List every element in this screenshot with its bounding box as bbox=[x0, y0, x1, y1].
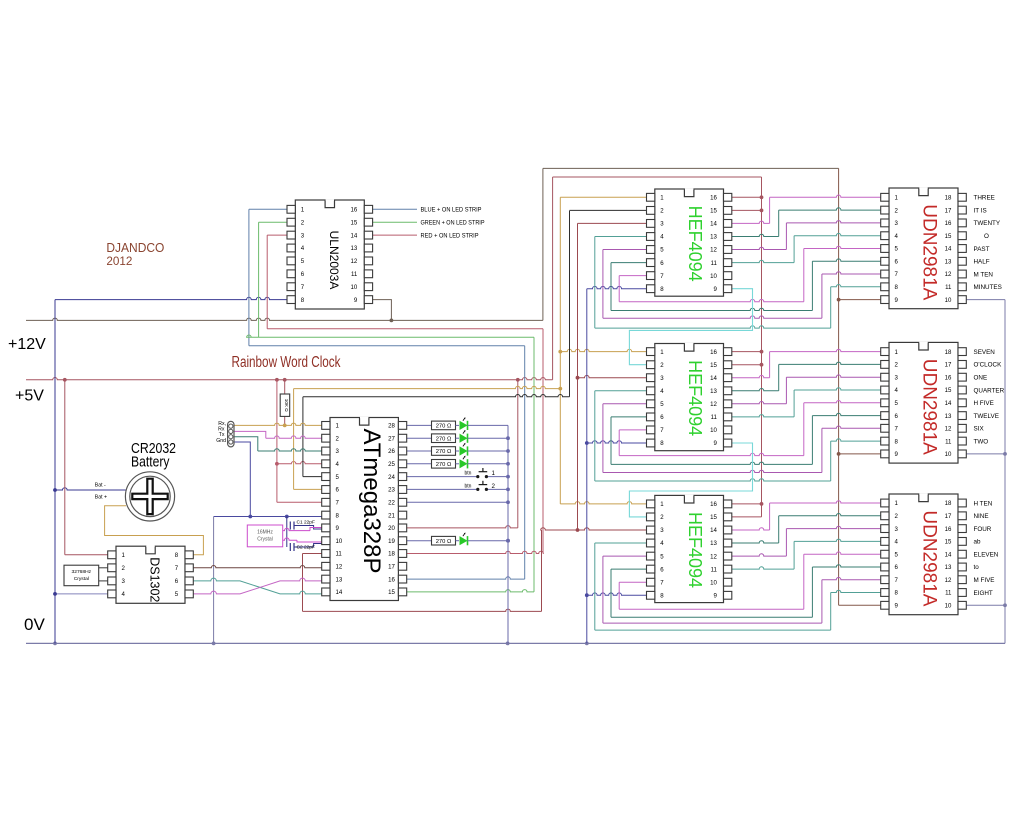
svg-text:C2 22pF: C2 22pF bbox=[297, 545, 315, 551]
svg-text:Battery: Battery bbox=[131, 455, 170, 471]
svg-text:17: 17 bbox=[945, 362, 952, 369]
svg-text:5: 5 bbox=[660, 553, 664, 560]
svg-text:16: 16 bbox=[351, 207, 358, 214]
svg-text:7: 7 bbox=[660, 579, 664, 586]
svg-text:HALF: HALF bbox=[974, 259, 990, 266]
svg-text:32768Hz: 32768Hz bbox=[72, 569, 92, 575]
svg-text:11: 11 bbox=[711, 414, 718, 421]
svg-text:16: 16 bbox=[388, 576, 395, 583]
svg-text:UDN2981A: UDN2981A bbox=[919, 204, 940, 300]
svg-text:6: 6 bbox=[301, 271, 305, 278]
svg-text:18: 18 bbox=[945, 500, 952, 507]
svg-text:3: 3 bbox=[301, 232, 305, 239]
svg-text:27: 27 bbox=[388, 435, 395, 442]
svg-text:ONE: ONE bbox=[974, 375, 988, 382]
svg-text:15: 15 bbox=[710, 362, 717, 369]
svg-text:THREE: THREE bbox=[974, 195, 995, 202]
svg-text:5: 5 bbox=[301, 258, 305, 265]
svg-text:UDN2981A: UDN2981A bbox=[919, 510, 940, 606]
svg-text:Bat +: Bat + bbox=[95, 495, 107, 501]
svg-text:13: 13 bbox=[710, 540, 717, 547]
svg-text:10: 10 bbox=[945, 603, 952, 610]
svg-text:28: 28 bbox=[388, 423, 395, 430]
svg-text:+12V: +12V bbox=[8, 336, 46, 353]
svg-text:14: 14 bbox=[945, 551, 952, 558]
svg-text:13: 13 bbox=[351, 245, 358, 252]
svg-text:14: 14 bbox=[945, 246, 952, 253]
svg-text:10: 10 bbox=[710, 273, 717, 280]
svg-text:MINUTES: MINUTES bbox=[974, 284, 1002, 291]
svg-text:12: 12 bbox=[945, 271, 952, 278]
svg-text:8: 8 bbox=[660, 593, 664, 600]
svg-text:2: 2 bbox=[492, 483, 496, 490]
svg-text:13: 13 bbox=[945, 258, 952, 265]
svg-text:12: 12 bbox=[945, 577, 952, 584]
svg-text:1: 1 bbox=[660, 195, 664, 202]
svg-text:ELEVEN: ELEVEN bbox=[974, 552, 999, 559]
svg-text:UDN2981A: UDN2981A bbox=[919, 359, 940, 455]
svg-text:DS1302: DS1302 bbox=[148, 557, 162, 602]
svg-text:DJANDCO: DJANDCO bbox=[106, 241, 164, 255]
svg-text:btn: btn bbox=[465, 471, 472, 477]
svg-text:6: 6 bbox=[660, 566, 664, 573]
svg-text:NINE: NINE bbox=[974, 513, 989, 520]
svg-text:7: 7 bbox=[301, 284, 305, 291]
svg-text:10: 10 bbox=[945, 297, 952, 304]
svg-text:btn: btn bbox=[465, 483, 472, 489]
svg-text:14: 14 bbox=[945, 400, 952, 407]
svg-text:O: O bbox=[984, 233, 989, 240]
svg-text:1: 1 bbox=[492, 470, 496, 477]
svg-text:TWENTY: TWENTY bbox=[974, 220, 1001, 227]
svg-text:9: 9 bbox=[354, 297, 358, 304]
svg-text:12: 12 bbox=[710, 401, 717, 408]
svg-text:270 Ω: 270 Ω bbox=[436, 449, 452, 455]
svg-text:5: 5 bbox=[660, 247, 664, 254]
svg-text:13: 13 bbox=[336, 576, 343, 583]
svg-text:Rainbow Word Clock: Rainbow Word Clock bbox=[232, 354, 341, 371]
svg-text:7: 7 bbox=[660, 273, 664, 280]
svg-text:4: 4 bbox=[301, 245, 305, 252]
svg-text:16: 16 bbox=[945, 374, 952, 381]
svg-text:18: 18 bbox=[388, 551, 395, 558]
svg-text:11: 11 bbox=[336, 551, 343, 558]
svg-text:6: 6 bbox=[660, 260, 664, 267]
svg-text:O'CLOCK: O'CLOCK bbox=[974, 362, 1003, 369]
svg-text:14: 14 bbox=[336, 589, 343, 596]
svg-text:18: 18 bbox=[945, 349, 952, 356]
svg-text:SIX: SIX bbox=[974, 426, 985, 433]
svg-text:FOUR: FOUR bbox=[974, 526, 992, 533]
svg-text:HEF4094: HEF4094 bbox=[685, 360, 705, 436]
svg-text:1: 1 bbox=[301, 207, 305, 214]
svg-text:14: 14 bbox=[710, 221, 717, 228]
svg-text:ULN2003A: ULN2003A bbox=[327, 231, 341, 290]
svg-text:+5V: +5V bbox=[15, 388, 44, 405]
svg-text:2012: 2012 bbox=[106, 254, 132, 268]
svg-text:3: 3 bbox=[660, 375, 664, 382]
svg-text:EIGHT: EIGHT bbox=[974, 590, 993, 597]
svg-text:17: 17 bbox=[388, 564, 395, 571]
svg-text:8: 8 bbox=[660, 286, 664, 293]
svg-text:270 Ω: 270 Ω bbox=[436, 436, 452, 442]
svg-text:4: 4 bbox=[660, 540, 664, 547]
svg-text:4: 4 bbox=[660, 234, 664, 241]
svg-text:11: 11 bbox=[351, 271, 358, 278]
svg-text:8: 8 bbox=[301, 297, 305, 304]
svg-text:7: 7 bbox=[660, 427, 664, 434]
svg-text:M TEN: M TEN bbox=[974, 271, 994, 278]
svg-text:11: 11 bbox=[945, 284, 952, 291]
svg-text:10: 10 bbox=[336, 538, 343, 545]
svg-text:6: 6 bbox=[660, 414, 664, 421]
svg-text:to: to bbox=[974, 564, 980, 571]
svg-text:12: 12 bbox=[710, 553, 717, 560]
svg-text:Crystal: Crystal bbox=[74, 576, 89, 582]
svg-text:5: 5 bbox=[660, 401, 664, 408]
svg-text:2: 2 bbox=[660, 208, 664, 215]
svg-text:16: 16 bbox=[710, 349, 717, 356]
svg-text:3: 3 bbox=[660, 221, 664, 228]
svg-text:13: 13 bbox=[710, 234, 717, 241]
svg-text:23: 23 bbox=[388, 487, 395, 494]
svg-text:22: 22 bbox=[388, 500, 395, 507]
svg-text:10: 10 bbox=[351, 284, 358, 291]
svg-text:15: 15 bbox=[945, 233, 952, 240]
svg-text:Crystal: Crystal bbox=[257, 536, 273, 542]
svg-text:270 Ω: 270 Ω bbox=[436, 539, 452, 545]
svg-text:ATmega328P: ATmega328P bbox=[358, 429, 385, 574]
svg-text:16: 16 bbox=[945, 526, 952, 533]
svg-text:25: 25 bbox=[388, 461, 395, 468]
svg-text:ab: ab bbox=[974, 539, 982, 546]
svg-text:24: 24 bbox=[388, 474, 395, 481]
svg-text:11: 11 bbox=[711, 566, 718, 573]
svg-text:20: 20 bbox=[388, 525, 395, 532]
svg-text:11: 11 bbox=[945, 438, 952, 445]
svg-text:2: 2 bbox=[660, 362, 664, 369]
svg-text:0V: 0V bbox=[24, 615, 45, 634]
svg-text:GREEN + ON LED STRIP: GREEN + ON LED STRIP bbox=[421, 220, 485, 227]
svg-text:15: 15 bbox=[710, 208, 717, 215]
svg-text:2: 2 bbox=[301, 219, 305, 226]
svg-text:16: 16 bbox=[710, 501, 717, 508]
svg-text:16: 16 bbox=[710, 195, 717, 202]
svg-text:4: 4 bbox=[660, 388, 664, 395]
svg-text:13: 13 bbox=[945, 564, 952, 571]
svg-text:H FIVE: H FIVE bbox=[974, 400, 994, 407]
svg-text:IT IS: IT IS bbox=[974, 207, 987, 214]
svg-text:12: 12 bbox=[710, 247, 717, 254]
svg-text:15: 15 bbox=[710, 514, 717, 521]
svg-text:16: 16 bbox=[945, 220, 952, 227]
svg-text:Bat -: Bat - bbox=[95, 483, 106, 489]
svg-text:14: 14 bbox=[710, 375, 717, 382]
svg-text:10: 10 bbox=[945, 451, 952, 458]
svg-text:11: 11 bbox=[711, 260, 718, 267]
svg-text:10K Ω: 10K Ω bbox=[284, 399, 289, 412]
svg-text:C1 22pF: C1 22pF bbox=[297, 520, 315, 526]
svg-text:270 Ω: 270 Ω bbox=[436, 424, 452, 430]
svg-text:1: 1 bbox=[660, 349, 664, 356]
svg-text:12: 12 bbox=[336, 564, 343, 571]
svg-text:HEF4094: HEF4094 bbox=[685, 206, 705, 282]
svg-text:M FIVE: M FIVE bbox=[974, 577, 995, 584]
svg-text:10: 10 bbox=[710, 579, 717, 586]
svg-text:26: 26 bbox=[388, 448, 395, 455]
svg-text:H TEN: H TEN bbox=[974, 500, 993, 507]
svg-text:14: 14 bbox=[710, 527, 717, 534]
svg-text:18: 18 bbox=[945, 195, 952, 202]
svg-text:11: 11 bbox=[945, 590, 952, 597]
svg-text:15: 15 bbox=[945, 387, 952, 394]
svg-text:10: 10 bbox=[710, 427, 717, 434]
svg-text:RED + ON LED STRIP: RED + ON LED STRIP bbox=[421, 232, 479, 239]
svg-text:13: 13 bbox=[945, 413, 952, 420]
svg-text:2: 2 bbox=[660, 514, 664, 521]
svg-text:15: 15 bbox=[351, 219, 358, 226]
svg-text:3: 3 bbox=[660, 527, 664, 534]
svg-text:16MHz: 16MHz bbox=[257, 529, 273, 535]
svg-text:270 Ω: 270 Ω bbox=[436, 462, 452, 468]
svg-text:PAST: PAST bbox=[974, 246, 990, 253]
svg-text:12: 12 bbox=[351, 258, 358, 265]
svg-text:Gnd: Gnd bbox=[216, 438, 226, 444]
svg-text:1: 1 bbox=[660, 501, 664, 508]
svg-text:BLUE + ON LED STRIP: BLUE + ON LED STRIP bbox=[421, 207, 482, 214]
svg-text:QUARTER: QUARTER bbox=[974, 387, 1005, 394]
svg-text:17: 17 bbox=[945, 207, 952, 214]
svg-text:15: 15 bbox=[945, 539, 952, 546]
svg-text:SEVEN: SEVEN bbox=[974, 349, 996, 356]
svg-text:HEF4094: HEF4094 bbox=[685, 512, 705, 588]
svg-text:8: 8 bbox=[660, 440, 664, 447]
svg-text:13: 13 bbox=[710, 388, 717, 395]
svg-text:17: 17 bbox=[945, 513, 952, 520]
svg-text:TWO: TWO bbox=[974, 438, 989, 445]
svg-text:12: 12 bbox=[945, 426, 952, 433]
svg-text:21: 21 bbox=[388, 512, 395, 519]
svg-text:TWELVE: TWELVE bbox=[974, 413, 999, 420]
svg-text:14: 14 bbox=[351, 232, 358, 239]
svg-text:19: 19 bbox=[388, 538, 395, 545]
svg-text:15: 15 bbox=[388, 589, 395, 596]
